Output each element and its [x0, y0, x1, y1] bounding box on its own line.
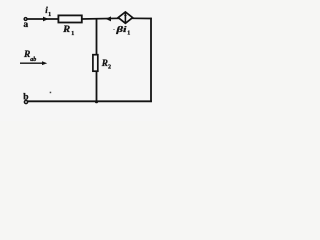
svg-text:a: a [23, 20, 28, 30]
svg-text:1: 1 [48, 12, 51, 18]
svg-text:2: 2 [108, 65, 111, 71]
svg-text:R: R [101, 59, 108, 69]
svg-text:R: R [62, 25, 70, 35]
svg-text:1: 1 [71, 31, 74, 37]
svg-text:b: b [23, 93, 28, 103]
svg-text:βi: βi [115, 24, 127, 34]
svg-text:ab: ab [30, 57, 36, 63]
svg-text:1: 1 [127, 31, 130, 37]
